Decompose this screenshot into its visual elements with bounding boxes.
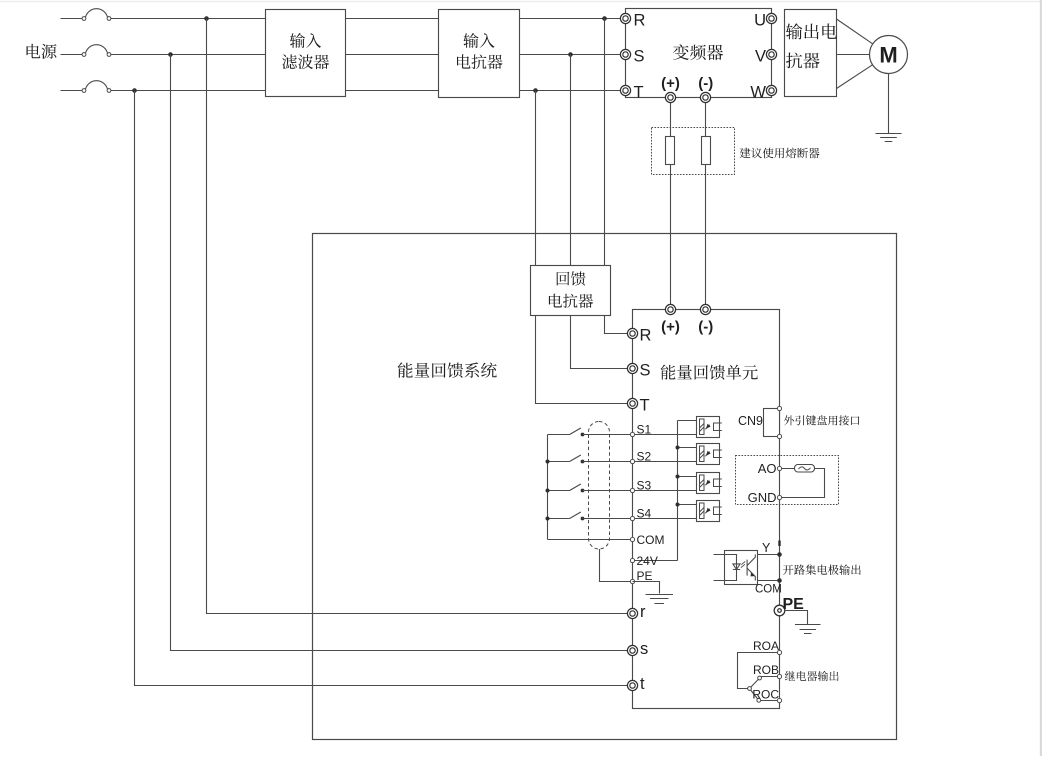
fuse F2 (-) <box>702 137 711 165</box>
svg-text:Y: Y <box>762 541 771 555</box>
relay ROC contact <box>757 698 761 702</box>
block feedback reactor 回馈电抗器 <box>531 266 611 316</box>
breaker Q2 left contact <box>82 53 86 57</box>
wire AO loop <box>780 469 825 498</box>
wire switch K4 left <box>548 518 570 520</box>
block input filter 输入滤波器 <box>266 10 346 97</box>
wire bypass L3 <box>135 91 633 686</box>
svg-text:S: S <box>640 361 651 379</box>
node ROA <box>777 650 781 654</box>
label note 开路集电极输出 <box>783 564 861 575</box>
svg-text:t: t <box>640 675 645 693</box>
svg-text:ROB: ROB <box>753 663 779 677</box>
label CN9 note 外引键盘用接口 <box>784 415 860 425</box>
node CN9 top <box>777 406 781 410</box>
wire 24V lead <box>633 560 678 562</box>
switch K3 pivot <box>581 489 585 493</box>
wire Y pin <box>758 554 780 556</box>
wire bypass L2 <box>171 55 633 651</box>
optocoupler U2 input <box>697 444 722 465</box>
svg-text:R: R <box>640 326 652 344</box>
terminal unit S <box>627 363 637 373</box>
terminal unit s <box>627 645 637 655</box>
svg-text:COM: COM <box>755 584 782 596</box>
wire W to motor <box>837 65 873 89</box>
wire DC bus (-) <box>705 98 707 310</box>
label inverter 变频器 <box>673 44 723 60</box>
svg-text:V: V <box>755 47 766 65</box>
optocoupler U5 output <box>725 551 758 585</box>
optocoupler U3 input <box>697 473 722 494</box>
label output reactor line1 <box>786 23 837 39</box>
wire feedback reactor to unit S <box>571 316 633 369</box>
label feedback reactor line2 <box>549 294 593 308</box>
wire S1 lead <box>583 434 633 436</box>
switch K3 blade <box>570 484 581 491</box>
relay K5 blade to ROB <box>750 678 760 689</box>
wire U to motor <box>837 19 873 44</box>
wire shield drain to PE <box>600 549 633 582</box>
wire tap S down <box>570 55 572 266</box>
label input filter line2 <box>282 54 329 69</box>
label input reactor line1 <box>463 33 494 48</box>
ground symbol motor <box>876 134 902 142</box>
node AO <box>777 466 781 470</box>
node CN9 bottom <box>777 434 781 438</box>
terminal S2 <box>630 459 634 463</box>
wire feedback reactor to unit T <box>536 316 633 404</box>
block inverter 变频器 <box>626 9 772 98</box>
breaker Q2 right contact <box>107 53 111 57</box>
svg-text:M: M <box>879 43 897 68</box>
terminal inverter R <box>620 13 630 23</box>
wire phase L2 source to breaker <box>61 54 83 56</box>
breaker Q1 arc <box>86 9 108 17</box>
terminal unit r <box>627 608 637 618</box>
terminal S1 <box>630 432 634 436</box>
label fuse note 建议使用熔断器 <box>740 148 820 159</box>
wire switch bus <box>547 435 549 540</box>
svg-text:s: s <box>640 640 648 658</box>
page right border <box>1040 0 1042 756</box>
wire S2 into opto <box>633 461 697 463</box>
wire S1 into opto <box>633 434 697 436</box>
svg-text:(+): (+) <box>661 75 680 92</box>
wire opto U4 top pin <box>678 504 697 506</box>
node tap T feedback <box>533 88 538 93</box>
node tap L2 bypass <box>168 52 173 57</box>
switch K4 blade <box>570 512 581 519</box>
svg-text:S2: S2 <box>637 449 652 463</box>
terminal inverter T <box>620 85 630 95</box>
wire phase L2 breaker to inverter <box>111 54 626 56</box>
terminal 24V <box>630 558 634 562</box>
node tap L3 bypass <box>132 88 137 93</box>
breaker Q2 arc <box>86 45 108 53</box>
fuse F1 (+) <box>666 137 675 165</box>
wire COM pin <box>758 580 780 582</box>
terminal COM <box>630 537 634 541</box>
breaker Q3 right contact <box>107 89 111 93</box>
svg-text:AO: AO <box>758 461 777 476</box>
connector pin mark above Y <box>778 541 780 547</box>
wire ROB <box>760 676 780 678</box>
wire tap R down <box>604 19 606 266</box>
page top border <box>0 1 1042 2</box>
svg-text:COM: COM <box>637 533 665 547</box>
breaker Q1 right contact <box>107 17 111 21</box>
label output reactor line2 <box>786 53 820 69</box>
node bus K3 <box>546 489 550 493</box>
svg-text:S4: S4 <box>637 506 652 520</box>
switch K2 pivot <box>581 460 585 464</box>
node ROC <box>777 698 781 702</box>
wire phase L1 breaker to inverter <box>111 18 626 20</box>
motor M1 circle <box>870 36 908 74</box>
node tap R feedback <box>602 16 607 21</box>
meter M2 <box>795 465 815 473</box>
wire relay ROA arm <box>738 653 780 689</box>
svg-text:(-): (-) <box>698 75 713 92</box>
node tap L1 bypass <box>204 16 209 21</box>
terminal unit T <box>627 398 637 408</box>
svg-text:PE: PE <box>637 569 653 583</box>
node Y <box>777 552 782 557</box>
node 24V bus U2 <box>676 446 680 450</box>
wire feedback reactor to unit R <box>605 316 633 334</box>
wire bypass L1 <box>207 19 633 614</box>
wire DC bus (+) <box>670 98 672 310</box>
node 24V bus U4 <box>676 503 680 507</box>
switch K1 pivot <box>581 433 585 437</box>
wire phase L1 source to breaker <box>61 18 83 20</box>
switch K1 blade <box>570 428 581 435</box>
svg-text:ROC: ROC <box>752 687 779 701</box>
optocoupler U4 input <box>697 501 722 522</box>
svg-text:T: T <box>634 83 644 101</box>
shielded cable dashed <box>589 422 610 550</box>
terminal unit (+) <box>665 304 675 314</box>
terminal S4 <box>630 516 634 520</box>
terminal PE shield <box>630 579 634 583</box>
wire S3 into opto <box>633 490 697 492</box>
node tap S feedback <box>568 52 573 57</box>
node bus K4 <box>546 517 550 521</box>
node bus K2 <box>546 460 550 464</box>
wire 24V bus <box>677 421 679 561</box>
wire S4 into opto <box>633 518 697 520</box>
terminal inverter W <box>766 85 776 95</box>
wire motor to ground <box>888 73 890 133</box>
block output reactor 输出电抗器 <box>785 10 837 97</box>
switch K2 blade <box>570 455 581 462</box>
wire switch K2 left <box>548 461 570 463</box>
label input filter line1 <box>290 33 321 48</box>
label input reactor line2 <box>457 54 503 69</box>
wire COM lead <box>548 539 633 541</box>
svg-text:S1: S1 <box>637 422 652 436</box>
node ROB <box>777 674 781 678</box>
terminal unit t <box>627 680 637 690</box>
terminal inverter V <box>766 49 776 59</box>
relay ROB contact <box>758 676 762 680</box>
label feedback reactor line1 <box>557 271 586 285</box>
terminal inverter (+) <box>665 92 675 102</box>
node GND <box>777 495 781 499</box>
ground symbol internal <box>646 595 674 604</box>
wire PE to internal ground <box>633 582 660 594</box>
svg-text:GND: GND <box>748 490 777 505</box>
svg-text:ROA: ROA <box>753 639 779 653</box>
enclosure energy feedback system <box>313 234 897 740</box>
switch K4 pivot <box>581 517 585 521</box>
block energy feedback unit <box>633 310 780 709</box>
terminal inverter (-) <box>700 92 710 102</box>
svg-text:T: T <box>640 396 650 414</box>
optocoupler U1 input <box>697 417 722 438</box>
terminal inverter S <box>620 49 630 59</box>
wire PE to ground <box>785 611 808 625</box>
label source 电源 <box>27 44 57 59</box>
fuse block dashed box <box>652 128 735 175</box>
wire phase L3 source to breaker <box>61 90 83 92</box>
svg-text:24V: 24V <box>637 554 658 568</box>
ground symbol PE <box>795 625 821 634</box>
relay K5 blade to ROC <box>750 689 759 701</box>
breaker Q1 left contact <box>82 17 86 21</box>
relay pivot contact <box>748 687 752 691</box>
svg-text:S: S <box>634 47 645 65</box>
wire opto U3 top pin <box>678 476 697 478</box>
svg-text:(+): (+) <box>661 318 680 335</box>
label system 能量回馈系统 <box>398 362 497 378</box>
node COM output <box>777 578 782 583</box>
wire switch K3 left <box>548 490 570 492</box>
wire opto U2 top pin <box>678 447 697 449</box>
wire ROC <box>759 700 780 702</box>
analog out dashed box <box>736 456 839 505</box>
wire S2 lead <box>583 461 633 463</box>
terminal unit (-) <box>700 304 710 314</box>
connector CN9 box <box>764 409 780 437</box>
node 24V bus U3 <box>676 475 680 479</box>
wire tap T down <box>535 91 537 266</box>
wire S3 lead <box>583 490 633 492</box>
terminal inverter U <box>766 13 776 23</box>
svg-text:(-): (-) <box>698 318 713 335</box>
svg-text:R: R <box>634 11 646 29</box>
label note 继电器输出 <box>785 671 839 681</box>
wire phase L3 breaker to inverter <box>111 90 626 92</box>
terminal PE <box>774 605 785 616</box>
svg-text:W: W <box>750 83 766 101</box>
svg-text:CN9: CN9 <box>738 414 763 428</box>
svg-text:U: U <box>754 11 766 29</box>
wire V to motor <box>837 54 870 56</box>
label unit 能量回馈单元 <box>661 365 758 380</box>
wire opto U5 left stubs <box>714 555 725 581</box>
block input reactor 输入电抗器 <box>439 10 520 98</box>
terminal unit R <box>627 328 637 338</box>
breaker Q3 arc <box>86 81 108 89</box>
wire switch K1 left <box>548 434 570 436</box>
svg-text:r: r <box>640 603 646 621</box>
wire S4 lead <box>583 518 633 520</box>
svg-text:S3: S3 <box>637 478 652 492</box>
terminal S3 <box>630 488 634 492</box>
breaker Q3 left contact <box>82 89 86 93</box>
wire opto U1 top pin <box>678 420 697 422</box>
